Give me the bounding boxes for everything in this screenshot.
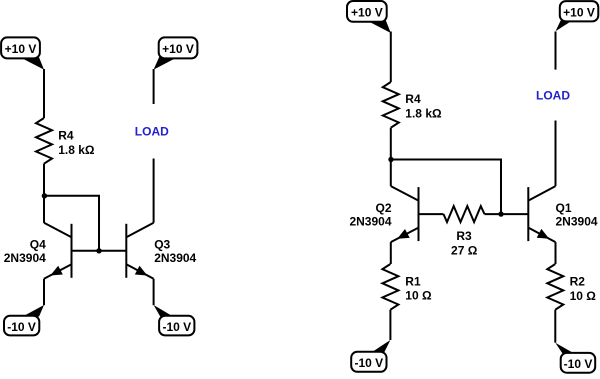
svg-text:2N3904: 2N3904	[349, 215, 391, 229]
svg-text:Q1: Q1	[556, 201, 572, 215]
svg-text:LOAD: LOAD	[536, 88, 570, 102]
svg-text:R4: R4	[58, 128, 74, 142]
svg-text:-10 V: -10 V	[162, 320, 191, 334]
svg-text:+10 V: +10 V	[563, 6, 595, 20]
svg-text:1.8 kΩ: 1.8 kΩ	[58, 143, 95, 157]
svg-text:-10 V: -10 V	[354, 356, 383, 370]
svg-text:2N3904: 2N3904	[154, 251, 196, 265]
svg-text:LOAD: LOAD	[135, 125, 169, 139]
svg-text:-10 V: -10 V	[7, 320, 36, 334]
svg-text:R1: R1	[405, 274, 421, 288]
svg-text:Q3: Q3	[154, 238, 170, 252]
svg-text:Q2: Q2	[375, 201, 391, 215]
svg-text:R2: R2	[570, 275, 586, 289]
svg-text:R4: R4	[405, 92, 421, 106]
svg-text:1.8 kΩ: 1.8 kΩ	[405, 107, 442, 121]
svg-text:-10 V: -10 V	[564, 357, 593, 371]
svg-text:Q4: Q4	[30, 238, 46, 252]
svg-text:R3: R3	[456, 229, 472, 243]
svg-text:10 Ω: 10 Ω	[570, 289, 597, 303]
svg-text:+10 V: +10 V	[162, 42, 194, 56]
svg-text:+10 V: +10 V	[351, 6, 383, 20]
svg-text:2N3904: 2N3904	[4, 251, 46, 265]
svg-text:27 Ω: 27 Ω	[451, 244, 478, 258]
svg-text:10 Ω: 10 Ω	[405, 288, 432, 302]
svg-text:2N3904: 2N3904	[556, 215, 598, 229]
svg-text:+10 V: +10 V	[5, 42, 37, 56]
